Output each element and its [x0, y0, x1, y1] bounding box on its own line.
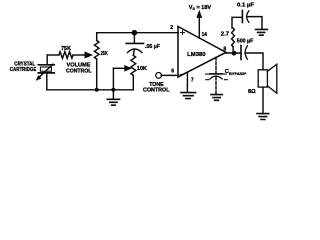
node input rail junction [132, 30, 138, 36]
svg-text:8: 8 [223, 47, 226, 53]
output wire pin 8 [226, 52, 241, 54]
svg-text:LM380: LM380 [187, 52, 205, 58]
svg-text:0.1 µF: 0.1 µF [237, 3, 255, 9]
crystal cartridge bottom lead [46, 73, 48, 90]
svg-text:6: 6 [171, 68, 174, 74]
crystal cartridge stylus arrow [40, 64, 54, 77]
svg-text:CARTRIDGE: CARTRIDGE [10, 67, 37, 73]
ground (pin 7) bars [181, 93, 196, 99]
node wiper-bus junction [111, 88, 115, 92]
resistor 2.7 [232, 28, 235, 47]
volume wiper arrowhead [85, 52, 93, 58]
resistor 2.7 bottom lead [232, 47, 234, 54]
capacitor 0.1uF curved plate [247, 11, 249, 23]
svg-text:10K: 10K [137, 66, 147, 72]
resistor 75K [59, 52, 73, 59]
crystal cartridge body box [40, 67, 51, 71]
potentiometer 10K tone control [131, 55, 136, 75]
svg-text:14: 14 [202, 32, 208, 38]
svg-text:VS = 18V: VS = 18V [189, 5, 212, 11]
25K bottom lead [96, 59, 98, 90]
ground bus wire [47, 89, 134, 91]
svg-text:7: 7 [191, 78, 194, 84]
C bypass dashed stem [215, 77, 217, 93]
VS arrowhead [197, 11, 202, 18]
25K top lead [96, 33, 98, 41]
10K bottom lead [132, 75, 134, 90]
crystal cartridge bottom plate [38, 72, 54, 74]
ground (0.1uF) bars [256, 29, 268, 35]
tone wiper arrowhead [125, 65, 132, 71]
capacitor .05uF straight plate [126, 42, 143, 44]
wire 75K to volume wiper arrow [73, 54, 85, 56]
svg-text:BYPASS*: BYPASS* [229, 72, 247, 76]
svg-text:.05 µF: .05 µF [145, 44, 161, 50]
capacitor 500uF right lead [245, 53, 263, 70]
node output junction [232, 51, 237, 56]
plus input sign [181, 31, 185, 35]
svg-text:500 µF: 500 µF [237, 39, 254, 45]
svg-text:8Ω: 8Ω [248, 89, 256, 95]
ground (bus) bars [107, 99, 119, 105]
svg-text:2: 2 [170, 25, 173, 31]
capacitor 0.1uF right lead [247, 17, 262, 29]
tone wiper down wire [112, 68, 114, 90]
pin 7 ground wire [186, 72, 188, 92]
svg-text:CONTROL: CONTROL [66, 68, 92, 74]
potentiometer 25K volume control [94, 41, 99, 59]
pin 6 terminal circle [156, 73, 162, 79]
capacitor .05uF curved plate [127, 49, 142, 53]
capacitor .05uF top lead [133, 33, 135, 44]
ground (speaker) bars [257, 114, 269, 120]
capacitor C bypass dashed lead [215, 57, 217, 72]
C bypass straight plate [210, 73, 223, 75]
wire cartridge to 75K [47, 54, 59, 56]
tone wiper wire [113, 67, 125, 69]
minus input sign [180, 73, 184, 75]
resistor 2.7 top lead [232, 17, 242, 28]
op-amp U1 LM380 triangle [178, 27, 226, 78]
svg-text:2.7: 2.7 [221, 31, 229, 37]
svg-text:75K: 75K [61, 46, 71, 52]
ground (bus) stem [112, 90, 114, 99]
pin 14 supply wire [198, 14, 200, 38]
svg-text:25K: 25K [101, 51, 108, 57]
speaker bottom wire [262, 87, 264, 113]
ground (C bypass) bars [211, 95, 222, 101]
svg-text:CONTROL: CONTROL [143, 88, 170, 94]
capacitor .05uF bottom lead [132, 49, 135, 55]
speaker cone [267, 64, 276, 93]
node 25K-bus junction [95, 88, 99, 92]
wire circle to pin 6 [161, 74, 178, 76]
crystal cartridge XDCR top lead [46, 55, 48, 65]
crystal cartridge top plate [38, 64, 54, 66]
wire top rail to LM380 pin 2 [97, 32, 178, 34]
C bypass curved plate [210, 76, 222, 79]
capacitor 500uF straight plate [240, 46, 242, 60]
speaker driver box [258, 70, 267, 87]
capacitor 0.1uF straight plate [241, 11, 243, 23]
capacitor 500uF curved plate [245, 46, 247, 59]
